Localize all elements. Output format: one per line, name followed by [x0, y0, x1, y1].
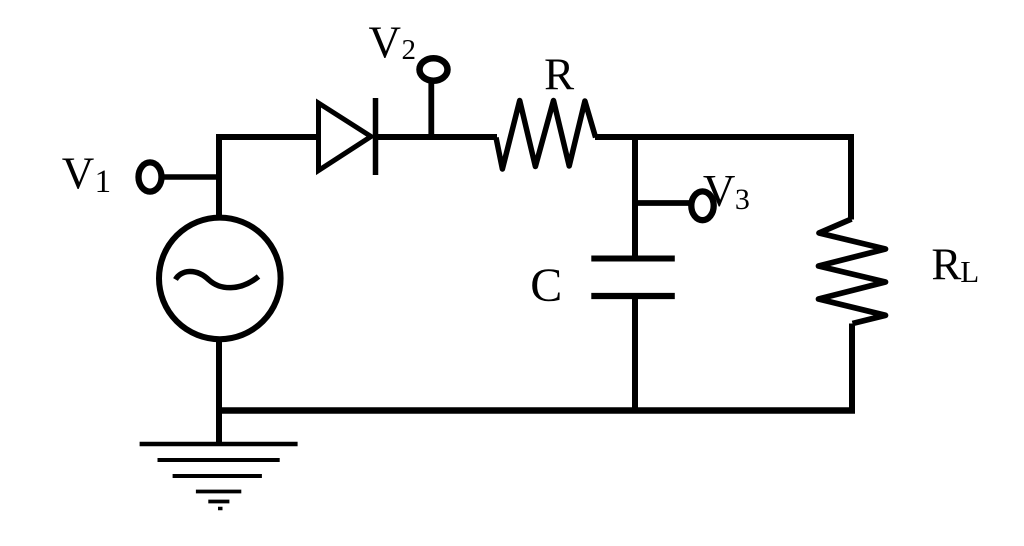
ac source V1 [159, 218, 281, 340]
svg-text:2: 2 [402, 34, 417, 66]
terminal V3 [691, 191, 713, 220]
ground [140, 444, 298, 509]
svg-text:V: V [369, 17, 402, 67]
svg-text:3: 3 [735, 183, 750, 216]
wire: right vertical top (corner to RL) [848, 134, 854, 220]
capacitor C bottom plate [591, 293, 675, 299]
wire: cap bottom plate to bottom wire [632, 296, 638, 413]
resistor R [496, 101, 596, 170]
sine wave inside source [176, 271, 259, 287]
diode cathode bar [373, 98, 379, 175]
wire: source bottom to ground [216, 339, 222, 444]
wire: V1 stub [162, 174, 223, 180]
wire: resistor R to top-right corner [595, 134, 851, 140]
wire: top wire left segment (corner to diode anode) [216, 134, 320, 140]
wire: V2 stub [428, 81, 434, 141]
svg-text:1: 1 [95, 164, 112, 200]
svg-text:R: R [931, 239, 961, 289]
wire: bottom wire [216, 407, 855, 414]
terminal V2 [420, 58, 448, 80]
terminal V1 [139, 162, 162, 191]
svg-text:L: L [960, 254, 979, 289]
svg-text:V: V [62, 149, 95, 199]
wire: RL bottom to bottom wire [849, 324, 855, 414]
capacitor C top plate [591, 256, 675, 262]
resistor RL [819, 219, 886, 324]
svg-text:V: V [703, 166, 736, 216]
wire: diode cathode to resistor R [376, 134, 498, 140]
wire: capacitor branch top (node to cap top plate) [632, 137, 638, 256]
diode D1 [319, 103, 372, 171]
svg-text:R: R [544, 49, 574, 99]
svg-text:C: C [530, 259, 562, 312]
wire: left vertical from top wire down to source top [216, 134, 222, 218]
wire: V3 stub [635, 200, 690, 206]
